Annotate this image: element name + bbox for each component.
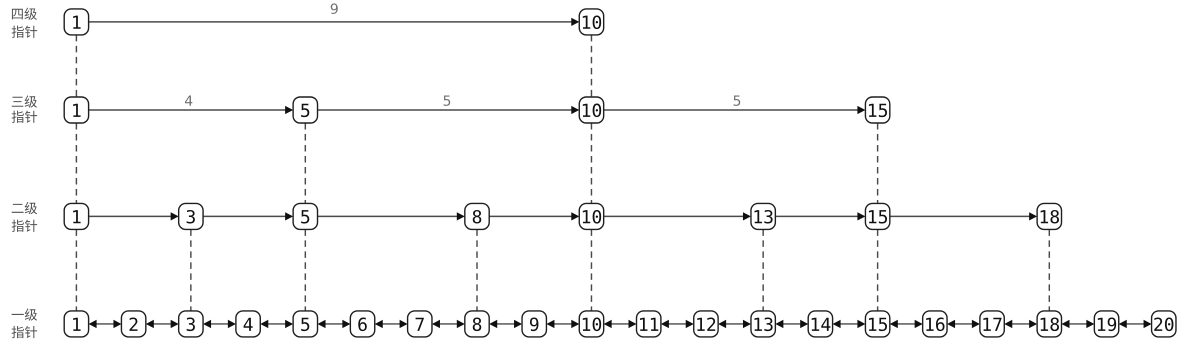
span label 5 (level 3, 5 to 10) bbox=[444, 95, 451, 105]
node 3 (level 1) bbox=[179, 311, 203, 337]
dashed link node 1: level 4 to level 3 bbox=[75, 35, 77, 97]
node 2 (level 1) bbox=[121, 311, 145, 337]
wire: level 1 double arrow 11 to 12 bbox=[661, 320, 694, 328]
wire: level 1 double arrow 15 to 16 bbox=[890, 320, 923, 328]
dashed link node 1: level 3 to level 2 bbox=[75, 123, 77, 203]
wire: level 3 arrow 5 to 10 bbox=[318, 106, 580, 114]
row label level 2: 二级指针 bbox=[12, 202, 38, 232]
node 7 (level 1) bbox=[408, 311, 432, 337]
node 1 (level 1) bbox=[64, 311, 88, 337]
node 5 (level 2) bbox=[293, 203, 317, 229]
wire: level 4 arrow 1 to 10 bbox=[89, 18, 580, 26]
wire: level 2 arrow 3 to 5 bbox=[203, 212, 293, 220]
wire: level 1 double arrow 19 to 20 bbox=[1119, 320, 1152, 328]
wire: level 2 arrow 10 to 13 bbox=[604, 212, 751, 220]
node 6 (level 1) bbox=[350, 311, 374, 337]
wire: level 1 double arrow 1 to 2 bbox=[89, 320, 122, 328]
wire: level 1 double arrow 14 to 15 bbox=[833, 320, 866, 328]
node 3 (level 2) bbox=[179, 203, 203, 229]
dashed link node 8: level 2 to level 1 bbox=[476, 229, 478, 311]
node 14 (level 1) bbox=[808, 311, 832, 337]
node 8 (level 1) bbox=[465, 311, 489, 337]
node 20 (level 1) bbox=[1152, 311, 1176, 337]
node 16 (level 1) bbox=[923, 311, 947, 337]
node 5 (level 1) bbox=[293, 311, 317, 337]
dashed link node 10: level 3 to level 2 bbox=[590, 123, 592, 203]
wire: level 1 double arrow 18 to 19 bbox=[1062, 320, 1095, 328]
wire: level 1 double arrow 12 to 13 bbox=[718, 320, 751, 328]
wire: level 1 double arrow 3 to 4 bbox=[203, 320, 236, 328]
dashed link node 10: level 4 to level 3 bbox=[590, 35, 592, 97]
dashed link node 15: level 2 to level 1 bbox=[877, 229, 879, 311]
node 15 (level 1) bbox=[865, 311, 889, 337]
wire: level 1 double arrow 2 to 3 bbox=[146, 320, 179, 328]
wire: level 1 double arrow 8 to 9 bbox=[489, 320, 522, 328]
node 17 (level 1) bbox=[980, 311, 1004, 337]
node 18 (level 1) bbox=[1037, 311, 1061, 337]
node 15 (level 3) bbox=[865, 97, 889, 123]
dashed link node 5: level 3 to level 2 bbox=[304, 123, 306, 203]
node 8 (level 2) bbox=[465, 203, 489, 229]
node 15 (level 2) bbox=[865, 203, 889, 229]
wire: level 1 double arrow 10 to 11 bbox=[604, 320, 637, 328]
wire: level 1 double arrow 16 to 17 bbox=[947, 320, 980, 328]
wire: level 2 arrow 8 to 10 bbox=[489, 212, 579, 220]
node 4 (level 1) bbox=[236, 311, 260, 337]
wire: level 3 arrow 1 to 5 bbox=[89, 106, 294, 114]
wire: level 2 arrow 15 to 18 bbox=[890, 212, 1037, 220]
dashed link node 18: level 2 to level 1 bbox=[1048, 229, 1050, 311]
node 9 (level 1) bbox=[522, 311, 546, 337]
wire: level 1 double arrow 9 to 10 bbox=[546, 320, 579, 328]
row label level 1: 一级指针 bbox=[12, 308, 38, 338]
dashed link node 3: level 2 to level 1 bbox=[190, 229, 192, 311]
wire: level 1 double arrow 7 to 8 bbox=[432, 320, 465, 328]
dashed link node 1: level 2 to level 1 bbox=[75, 229, 77, 311]
node 13 (level 1) bbox=[751, 311, 775, 337]
wire: level 1 double arrow 5 to 6 bbox=[318, 320, 351, 328]
node 18 (level 2) bbox=[1037, 203, 1061, 229]
wire: level 1 double arrow 17 to 18 bbox=[1004, 320, 1037, 328]
row label level 3: 三级指针 bbox=[12, 95, 38, 122]
dashed link node 5: level 2 to level 1 bbox=[304, 229, 306, 311]
node 5 (level 3) bbox=[293, 97, 317, 123]
dashed link node 10: level 2 to level 1 bbox=[590, 229, 592, 311]
dashed link node 13: level 2 to level 1 bbox=[762, 229, 764, 311]
node 1 (level 4) bbox=[64, 9, 88, 35]
wire: level 2 arrow 13 to 15 bbox=[775, 212, 865, 220]
row label level 4: 四级指针 bbox=[12, 8, 38, 38]
span label 9 (level 4, 1 to 10) bbox=[331, 3, 338, 14]
wire: level 1 double arrow 13 to 14 bbox=[775, 320, 808, 328]
node 12 (level 1) bbox=[694, 311, 718, 337]
node 10 (level 4) bbox=[579, 9, 603, 35]
node 13 (level 2) bbox=[751, 203, 775, 229]
node 1 (level 2) bbox=[64, 203, 88, 229]
node 10 (level 2) bbox=[579, 203, 603, 229]
span label 5 (level 3, 10 to 15) bbox=[734, 95, 741, 105]
wire: level 2 arrow 5 to 8 bbox=[318, 212, 465, 220]
span label 4 (level 3, 1 to 5) bbox=[185, 95, 192, 105]
wire: level 1 double arrow 4 to 5 bbox=[260, 320, 293, 328]
wire: level 1 double arrow 6 to 7 bbox=[375, 320, 408, 328]
wire: level 2 arrow 1 to 3 bbox=[89, 212, 179, 220]
wire: level 3 arrow 10 to 15 bbox=[604, 106, 866, 114]
node 10 (level 3) bbox=[579, 97, 603, 123]
node 1 (level 3) bbox=[64, 97, 88, 123]
node 10 (level 1) bbox=[579, 311, 603, 337]
node 19 (level 1) bbox=[1094, 311, 1118, 337]
dashed link node 15: level 3 to level 2 bbox=[877, 123, 879, 203]
node 11 (level 1) bbox=[637, 311, 661, 337]
